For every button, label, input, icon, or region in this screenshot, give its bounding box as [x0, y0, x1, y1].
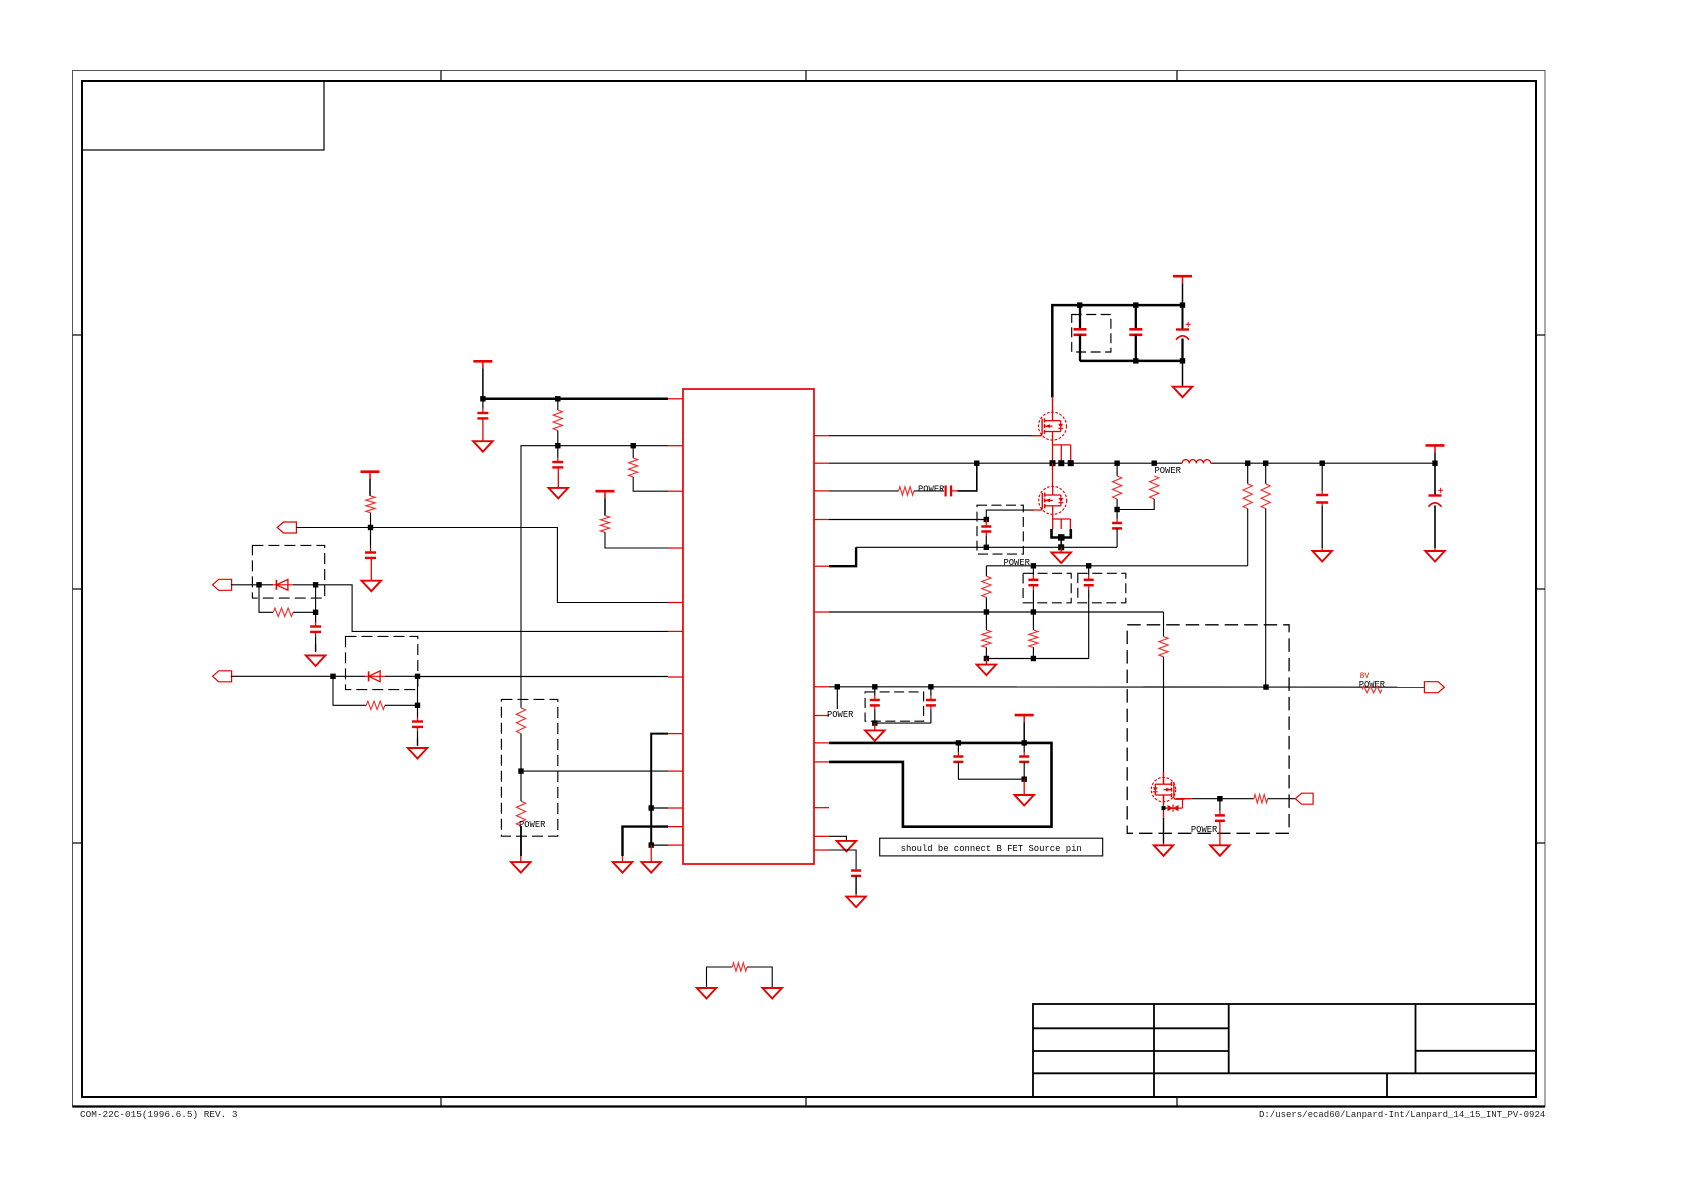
Q3 drain red: [1163, 772, 1165, 784]
sheet code text: [80, 1109, 238, 1120]
wire pin 686.8 net: [829, 684, 1424, 690]
dashed box C15: [865, 692, 924, 721]
svg-text:D:/users/ecad60/Lanpard-Int/La: D:/users/ecad60/Lanpard-Int/Lanpard_14_1…: [1259, 1110, 1545, 1120]
dashed box D1: [252, 545, 324, 598]
resistor R15: [1261, 463, 1270, 687]
wire P2 net: [231, 584, 259, 586]
resistor R17: [1159, 637, 1168, 778]
wire VIN riser thick: [1052, 302, 1185, 397]
resistor R2: [629, 446, 668, 492]
wire R17 drop: [1163, 612, 1165, 637]
capacitor C8 electrolytic: [1176, 305, 1191, 361]
dashed box POWER divider: [501, 699, 557, 836]
dashed box C6: [1072, 315, 1111, 353]
capacitor C13: [1316, 463, 1328, 548]
wire P3 net: [231, 674, 336, 679]
dashed box C11: [1023, 573, 1071, 603]
capacitor C10: [981, 520, 991, 551]
wire pin feedback: [829, 490, 899, 492]
resistor R13: [1029, 612, 1038, 659]
wire pin 612 net: [829, 609, 1164, 614]
power bar VCC A: [473, 361, 492, 399]
mosfet Q2: [1032, 486, 1067, 514]
wire pin 850: [829, 850, 856, 869]
ground pin11: [613, 856, 633, 873]
8V label: [1360, 672, 1370, 681]
ground C17: [1210, 843, 1230, 856]
wire VIN lower rail thick: [1080, 358, 1186, 363]
ground C2: [549, 467, 569, 498]
ground fb: [977, 659, 997, 676]
Q2 drain wire: [1052, 463, 1054, 486]
ground Q3: [1154, 843, 1174, 856]
POWER label rail: [1155, 466, 1182, 476]
ground R8: [511, 856, 531, 873]
svg-text:POWER: POWER: [1004, 558, 1031, 568]
ground R9 right: [762, 988, 782, 999]
resistor R11: [982, 566, 991, 612]
note box: [880, 838, 1103, 856]
capacitor C4: [310, 612, 321, 652]
ground C14: [1425, 548, 1445, 561]
svg-text:POWER: POWER: [918, 485, 945, 495]
wire D1 to pin6: [316, 585, 668, 632]
note text: [901, 844, 1082, 854]
power bar VOUT: [1426, 445, 1445, 463]
file path text: [1259, 1110, 1545, 1120]
capacitor C5: [412, 705, 423, 746]
capacitor C1: [477, 399, 488, 419]
diode D2: [333, 671, 420, 682]
POWER label out: [1359, 680, 1386, 690]
wire pin Q2 gate: [829, 510, 1034, 522]
wire D2 to pin7: [418, 676, 669, 678]
resistor R6: [333, 676, 420, 709]
ground pin 836.3: [837, 841, 857, 852]
sheet outer border frame: [73, 71, 1546, 1107]
dashed box C10: [977, 505, 1023, 554]
dashed box Q3 block: [1127, 625, 1289, 834]
ground C13: [1312, 548, 1332, 561]
output rail: [829, 461, 1438, 466]
capacitor C15: [870, 687, 880, 726]
capacitor C20: [851, 871, 861, 895]
connector P4: [1295, 793, 1313, 804]
sheet inner border frame: [82, 81, 1536, 1097]
POWER label fb: [1004, 558, 1031, 568]
ground pin12: [641, 845, 661, 873]
resistor R1: [553, 399, 562, 446]
wire caps bus: [875, 722, 931, 724]
wire pin8 thick: [649, 734, 669, 848]
capacitor C2: [552, 446, 563, 468]
wire P1 to pin5: [296, 525, 668, 603]
resistor R9: [707, 963, 773, 987]
IC U1 left pins: [668, 399, 683, 845]
svg-text:POWER: POWER: [1155, 466, 1182, 476]
POWER label R10: [918, 485, 945, 495]
wire Q2 source net: [829, 547, 1117, 566]
Q2 source bracket: [1052, 514, 1071, 550]
resistor R16: [1362, 686, 1382, 693]
connector P1: [277, 522, 296, 533]
connector P5: [1424, 682, 1444, 693]
capacitor C11: [1028, 566, 1038, 612]
resistor R20: [1117, 476, 1159, 510]
capacitor C16: [926, 687, 936, 723]
wire feedback net: [986, 563, 1247, 568]
capacitor C17: [1215, 799, 1225, 843]
diode D1: [256, 579, 318, 590]
svg-text:COM-22C-015(1996.6.5) REV. 3: COM-22C-015(1996.6.5) REV. 3: [80, 1109, 238, 1120]
resistor R8: [516, 771, 525, 856]
connector P2: [213, 579, 232, 590]
power bar loop: [1015, 715, 1034, 743]
svg-text:POWER: POWER: [827, 710, 854, 720]
wire B-FET source loop thick: [829, 740, 1052, 827]
mosfet Q3: [1151, 777, 1184, 801]
ground C8: [1173, 361, 1193, 397]
title block: [1033, 1004, 1536, 1097]
dashed box C12: [1078, 573, 1126, 603]
wire pin9 net: [518, 768, 668, 773]
wire pin gate Q1: [829, 435, 1034, 437]
IC U1 right pins: [814, 436, 829, 850]
connector P3: [213, 671, 232, 682]
Q1 source ties: [1050, 440, 1074, 466]
POWER label pin7: [827, 710, 854, 720]
wire pin 836.3: [829, 836, 846, 841]
power bar VCC C: [361, 472, 380, 496]
wire pin10: [651, 807, 668, 809]
ground C1: [473, 418, 493, 451]
power bar VCC B: [596, 491, 615, 515]
capacitor C3: [365, 528, 376, 558]
POWER label lower-left: [519, 820, 546, 830]
wire pin11 thick: [623, 827, 669, 856]
POWER label Q3: [1191, 825, 1218, 835]
resistor R12: [982, 612, 991, 659]
mosfet Q1: [1032, 397, 1067, 441]
capacitor C9 series: [946, 463, 977, 496]
svg-text:POWER: POWER: [1191, 825, 1218, 835]
ground R9 left: [697, 988, 717, 999]
wire pin2 net: [521, 443, 668, 708]
power bar VIN: [1173, 276, 1192, 305]
wire gnd bus: [984, 656, 1089, 661]
capacitor C21: [1112, 510, 1122, 548]
capacitor C6: [1074, 305, 1087, 361]
Q3 source: [1163, 795, 1165, 843]
resistor R4: [366, 496, 375, 528]
inductor L1: [1182, 460, 1211, 464]
ground loop: [1014, 779, 1033, 805]
svg-text:POWER: POWER: [519, 820, 546, 830]
ground C3: [362, 558, 382, 591]
POWER tap: [836, 687, 838, 709]
resistor R14: [1243, 463, 1252, 566]
ground C4: [306, 656, 326, 667]
resistor R7: [516, 708, 525, 771]
resistor R5: [259, 585, 318, 617]
ground C15: [865, 723, 885, 741]
wire pin12: [651, 844, 668, 846]
resistor R18: [1254, 795, 1296, 803]
capacitor C12: [1084, 566, 1094, 659]
dashed box D2: [346, 636, 418, 689]
capacitor C18: [953, 743, 1024, 779]
svg-text:should be connect B FET Source: should be connect B FET Source pin: [901, 844, 1082, 854]
ground C5: [408, 748, 428, 759]
revision box top-left: [82, 81, 324, 150]
wire Q3 gate net: [1176, 796, 1254, 801]
ground C20: [846, 894, 866, 907]
resistor R19: [1113, 463, 1122, 512]
capacitor C7: [1129, 305, 1142, 361]
IC U1 body: [683, 389, 814, 864]
capacitor C19: [1019, 743, 1029, 782]
resistor R10: [899, 487, 944, 495]
border zone ticks: [73, 71, 1546, 1107]
ground Q2: [1051, 547, 1071, 563]
zener D3: [1162, 799, 1183, 812]
wire VCC rail to pin1: [480, 396, 668, 401]
capacitor C14 electrolytic: [1429, 463, 1444, 548]
resistor R3: [600, 516, 668, 548]
